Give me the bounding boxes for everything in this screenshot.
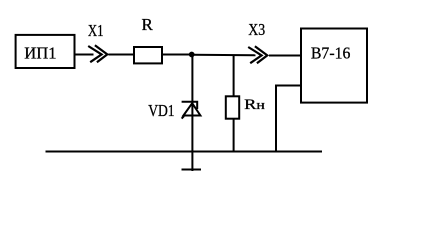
wire from corner down to ground bus — [275, 85, 277, 152]
zener diode VD1 — [182, 102, 201, 119]
voltmeter box В7-16 — [301, 29, 367, 103]
svg-text:VD1: VD1 — [148, 101, 174, 120]
wire from X1 to resistor R — [108, 54, 134, 56]
svg-text:X1: X1 — [88, 21, 104, 40]
ground bus wire — [46, 151, 323, 153]
svg-text:Rн: Rн — [244, 97, 265, 113]
wire from node A to connector X3 — [192, 54, 256, 56]
wire from R to node A — [162, 54, 192, 56]
svg-text:ИП1: ИП1 — [24, 44, 56, 63]
node A (junction dot) — [189, 52, 195, 58]
wire from В7-16 left side to corner — [275, 85, 301, 87]
resistor Rн — [226, 96, 239, 118]
wire from main wire down to Rн — [233, 55, 235, 97]
wire from Rн to ground bus — [233, 119, 235, 152]
svg-text:R: R — [142, 15, 154, 34]
connector X3 (double chevron) — [248, 46, 267, 63]
resistor R — [134, 47, 162, 63]
wire from X3 to voltmeter В7-16 — [269, 55, 301, 57]
wire vertical from node A down to ground — [191, 55, 193, 172]
svg-text:X3: X3 — [248, 20, 265, 39]
ground — [182, 169, 202, 171]
power supply box ИП1 — [16, 35, 75, 68]
svg-text:В7-16: В7-16 — [311, 44, 351, 63]
wire from ИП1 to connector X1 — [75, 54, 94, 56]
connector X1 (double chevron) — [88, 45, 107, 62]
